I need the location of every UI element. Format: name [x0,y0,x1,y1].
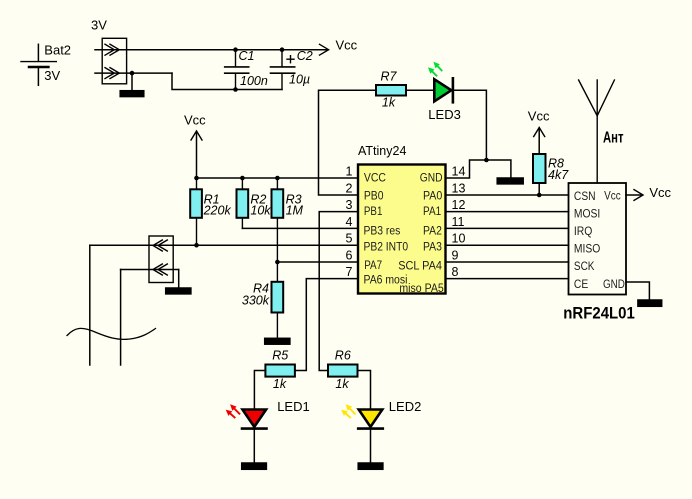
svg-text:Vcc: Vcc [184,113,206,128]
Vcc arrow nRF [634,190,643,201]
ground below LED1 [242,463,267,469]
svg-text:1M: 1M [286,204,304,218]
svg-text:PB1: PB1 [364,206,383,218]
wire pin14 gnd [446,160,511,178]
wire R6 to LED2 [358,371,371,409]
svg-text:nRF24L01: nRF24L01 [563,304,635,323]
capacitor C2 [271,50,295,90]
wire pin9 row [446,261,569,263]
svg-text:PA3: PA3 [423,241,442,253]
svg-text:CSN: CSN [574,191,596,203]
svg-text:5: 5 [346,232,353,246]
svg-text:3V: 3V [91,18,107,33]
resistor R7 [376,85,406,96]
svg-text:CE: CE [574,279,589,291]
svg-text:220k: 220k [203,204,232,218]
wire Vcc rail [197,177,359,179]
wire pin3 R6 [319,212,358,371]
wire sensor left drop 1 [89,245,91,365]
svg-text:4: 4 [346,215,353,229]
LED1 emission arrows [226,404,240,417]
svg-text:ATtiny24: ATtiny24 [358,144,406,158]
resistor R3 [272,178,284,262]
wire ground stub plug [131,73,133,91]
node R1 bottom pin5 [194,243,199,248]
svg-text:R5: R5 [272,349,288,363]
op IC ATtiny24 body [358,165,446,294]
wire pin4 from R2 [242,227,358,229]
wire pin11 row [446,227,569,229]
svg-text:2: 2 [346,182,353,196]
node C1 bottom [233,87,238,92]
svg-text:4k7: 4k7 [548,168,569,182]
svg-text:1k: 1k [382,96,396,110]
resistor R1 [190,178,202,245]
svg-text:LED1: LED1 [277,399,310,414]
svg-text:3: 3 [346,198,353,212]
svg-text:PA2: PA2 [423,225,442,237]
wire sensor left drop 2 [120,270,122,366]
svg-text:9: 9 [452,249,459,263]
connector X1 plug [102,38,126,84]
wire bottom row plug [95,72,172,74]
node rail R3 [275,176,280,181]
node rail R2 [240,176,245,181]
svg-text:PA0: PA0 [423,191,442,203]
resistor R6 [328,365,358,377]
svg-text:Vcc: Vcc [604,191,621,203]
svg-text:13: 13 [452,182,466,196]
wire pin7 R5 [295,279,358,371]
LED2 yellow [358,410,383,464]
ground pin14 [497,178,523,184]
LED2 emission arrows [341,404,355,417]
resistor R4 [272,262,284,338]
svg-text:LED3: LED3 [428,107,461,122]
svg-text:GND: GND [420,172,443,184]
ground below sensor [166,288,191,294]
ground below plug [120,91,144,97]
node rail R1 [194,176,199,181]
wire top row plug to Vcc [95,49,327,51]
svg-text:6: 6 [346,249,353,263]
svg-text:PA1: PA1 [423,206,441,218]
svg-text:PA7: PA7 [364,260,382,272]
module nRF24L01 body [569,183,627,295]
svg-text:14: 14 [452,165,466,179]
wire nRF Vcc [626,194,641,196]
svg-text:VCC: VCC [364,172,386,184]
Vcc arrow mid [191,131,202,178]
photo sensor box [149,236,173,283]
svg-text:1: 1 [346,165,353,179]
wire pin8 row [446,278,569,280]
node C2 top [280,47,285,52]
svg-text:Vcc: Vcc [649,185,671,200]
svg-text:11: 11 [452,215,465,229]
svg-text:Bat2: Bat2 [44,43,71,58]
wire pin5 row [90,244,358,246]
svg-text:PB3 res: PB3 res [364,225,401,237]
svg-text:PB0: PB0 [364,191,384,203]
svg-text:SCL PA4: SCL PA4 [398,260,442,272]
svg-text:R7: R7 [381,70,398,84]
wire R5 to LED1 [254,371,265,409]
wire sensor row2 [121,269,179,271]
svg-text:C1: C1 [239,49,255,63]
wire R7 net PB0 [319,90,377,195]
wire pin12 row [446,211,569,213]
node C1 top [233,47,238,52]
svg-text:Ант: Ант [603,130,624,147]
svg-text:1k: 1k [273,377,287,391]
LED3 emission arrows [428,62,442,76]
svg-text:Vcc: Vcc [528,109,550,124]
LED1 red [242,410,267,464]
svg-text:8: 8 [452,265,459,279]
svg-text:LED2: LED2 [389,399,422,414]
LED3 green [434,78,453,102]
wire corner down [172,73,282,89]
wire sensor ground stub [178,270,180,289]
resistor R5 [265,365,295,377]
wire pin10 row [446,244,569,246]
svg-text:PB2 INT0: PB2 INT0 [364,241,409,253]
ground below R4 [265,338,290,344]
node R3 R4 pin6 [275,260,280,265]
svg-text:Vcc: Vcc [336,38,358,53]
capacitor C1 [225,50,249,90]
wire R7 to LED3 [406,89,434,91]
svg-text:miso PA5: miso PA5 [399,283,443,295]
svg-text:R6: R6 [335,349,351,363]
svg-text:1k: 1k [335,377,349,391]
resistor R8 [533,128,546,196]
svg-text:12: 12 [452,198,466,212]
Vcc arrow top [320,44,329,55]
svg-text:C2: C2 [297,49,313,63]
svg-text:10k: 10k [250,204,271,218]
svg-text:MISO: MISO [574,244,600,256]
battery Bat2 [21,44,56,85]
svg-text:MOSI: MOSI [574,208,600,220]
svg-text:GND: GND [603,279,625,291]
ground below LED2 [358,463,383,469]
svg-text:7: 7 [346,265,353,279]
svg-text:100n: 100n [240,74,268,88]
node plug ground [130,71,135,76]
svg-text:3V: 3V [44,68,60,83]
ground nRF [638,300,662,306]
svg-text:10: 10 [452,232,466,246]
node gnd net [484,158,489,163]
wire nRF GND [626,282,649,300]
wire pin6 row [277,261,358,263]
resistor R2 [237,178,249,228]
svg-text:330k: 330k [242,294,270,308]
wire LED3 to gnd net [453,90,487,160]
svg-text:SCK: SCK [574,261,595,273]
antenna [579,80,615,183]
svg-text:10µ: 10µ [289,73,310,87]
node R8 pin13 [537,193,542,198]
wire pin13 row [446,194,569,196]
svg-text:IRQ: IRQ [574,226,593,238]
squiggle tear line [67,328,156,339]
